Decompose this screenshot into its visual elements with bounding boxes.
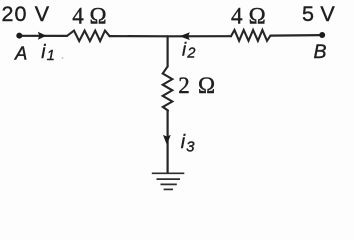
wire: center junction to resistor R2 [168, 35, 232, 37]
resistor R2 4 ohm (right horizontal zigzag) [231, 30, 271, 41]
svg-text:i1: i1 [41, 42, 55, 64]
wire: R2 to node B [271, 34, 323, 37]
wire: node A to resistor R1 [19, 35, 67, 37]
ground symbol [152, 173, 185, 189]
wire: R1 to center junction [110, 35, 168, 37]
node A terminal dot [16, 33, 22, 39]
wire: R3 down to ground [167, 111, 169, 173]
current arrow i3 (downward) [163, 135, 171, 145]
resistor R3 2 ohm (vertical zigzag) [163, 67, 173, 111]
svg-text:4Ω: 4Ω [231, 3, 266, 28]
current arrow i1 (rightward) [38, 32, 47, 40]
wire: junction down to resistor R3 [167, 36, 169, 66]
svg-text:B: B [314, 41, 327, 63]
svg-text:A: A [14, 42, 27, 63]
svg-text:20 V: 20 V [2, 2, 51, 26]
svg-text:i2: i2 [182, 39, 195, 62]
svg-text:i3: i3 [181, 131, 195, 155]
resistor R1 4 ohm (left horizontal zigzag) [67, 31, 110, 41]
stray scan dot after i1 [62, 57, 64, 59]
current arrow i2 (leftward toward junction) [180, 32, 190, 40]
svg-text:2Ω: 2Ω [178, 73, 215, 98]
node B terminal dot [319, 32, 325, 38]
svg-text:5 V: 5 V [302, 2, 335, 26]
svg-text:4Ω: 4Ω [72, 3, 106, 28]
